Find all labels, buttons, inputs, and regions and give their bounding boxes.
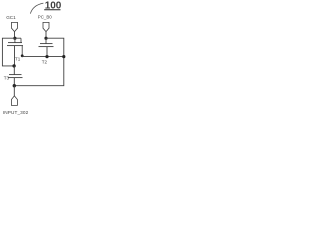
left rail wire [2, 38, 21, 66]
bus wire [22, 56, 64, 58]
T1 bottom lead [14, 46, 16, 66]
T2 top plate [40, 43, 53, 45]
underline of 100 [44, 9, 60, 11]
T1 top plate [8, 42, 22, 44]
svg-text:INPUT_302: INPUT_302 [3, 110, 29, 115]
T3 bottom lead [13, 78, 15, 86]
wire PC_B0 port to rail [45, 32, 47, 39]
node dot bottom junction [13, 84, 16, 87]
right rail wire down to T3 bus [14, 38, 63, 85]
port PC_B0 [43, 22, 49, 31]
svg-text:T1: T1 [15, 56, 21, 61]
T3 top plate [9, 74, 22, 76]
port GC1 [12, 22, 18, 31]
svg-text:T2: T2 [42, 60, 48, 65]
leader line to 100 [30, 3, 43, 14]
wire GC1 port to rail [14, 32, 16, 39]
T1 channel plate [7, 45, 23, 47]
T2 channel plate [39, 46, 54, 48]
T1 gate lead [14, 38, 16, 42]
port INPUT_302 [11, 96, 17, 106]
T3 channel plate [8, 77, 23, 79]
T2 bottom lead [46, 47, 48, 57]
T1 rail corner drop [20, 38, 22, 42]
node dot left mid junction [12, 64, 15, 67]
node dot GC1 [13, 37, 16, 40]
T3 top lead [13, 66, 15, 75]
node dot PC_B0 [44, 37, 47, 40]
svg-text:GC1: GC1 [6, 15, 16, 20]
T1 right drop to bus [21, 46, 23, 57]
wire down to input port [13, 86, 15, 96]
T2 gate lead [45, 38, 47, 43]
node dot T2 on bus [45, 55, 48, 58]
svg-text:PC_B0: PC_B0 [38, 15, 52, 20]
node dot bus start [21, 54, 24, 57]
node dot bus right end [62, 55, 65, 58]
